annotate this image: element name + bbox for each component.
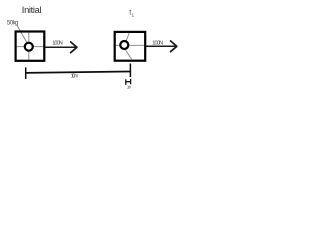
svg-text:10m: 10m (71, 73, 79, 79)
wheel W2 horizontal spoke (115, 44, 144, 46)
wheel W1 vertical spoke (28, 32, 30, 61)
svg-text:1m: 1m (127, 84, 132, 89)
force arrow F1 (100N, left) (46, 42, 77, 53)
box M2 (t1) (115, 32, 146, 61)
svg-text:50kg: 50kg (7, 21, 19, 27)
svg-text:1: 1 (132, 12, 135, 18)
wheel W2 upper spoke (124, 32, 129, 45)
svg-text:Initial: Initial (22, 5, 42, 15)
box M1 (Initial, 50kg) (16, 32, 45, 61)
wheel W2 (120, 41, 128, 49)
leader line from 50kg label to wheel W1 (17, 26, 29, 46)
wheel W1 (25, 43, 33, 51)
dimension line 10m (ticks and line) (26, 64, 131, 80)
wheel W1 horizontal spoke (16, 46, 45, 48)
svg-text:100N: 100N (52, 40, 63, 46)
label t1 (129, 9, 134, 18)
wheel W2 lower spoke (124, 48, 132, 60)
dimension line 1m (ticks and line) (126, 79, 131, 85)
svg-text:100N: 100N (152, 40, 163, 46)
force arrow F2 (100N, right) (146, 41, 177, 52)
